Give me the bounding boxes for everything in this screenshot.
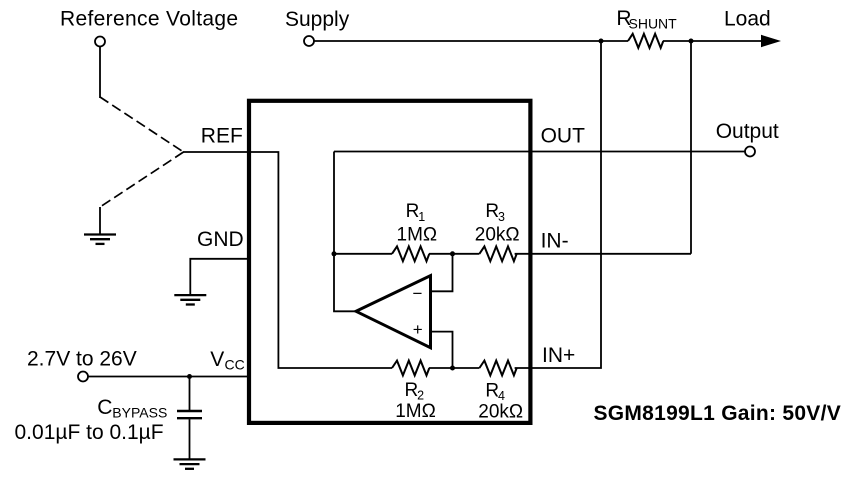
svg-text:Reference Voltage: Reference Voltage (60, 8, 238, 31)
svg-text:Supply: Supply (285, 8, 350, 31)
svg-text:3: 3 (498, 210, 505, 224)
svg-text:REF: REF (201, 125, 243, 148)
svg-text:BYPASS: BYPASS (112, 405, 167, 421)
svg-text:20kΩ: 20kΩ (478, 401, 523, 422)
svg-text:4: 4 (498, 389, 505, 403)
svg-text:0.01µF to 0.1µF: 0.01µF to 0.1µF (15, 421, 164, 444)
svg-text:1MΩ: 1MΩ (395, 401, 436, 422)
svg-text:OUT: OUT (541, 125, 586, 148)
svg-text:Output: Output (716, 120, 779, 143)
svg-text:SHUNT: SHUNT (629, 16, 678, 32)
svg-text:V: V (210, 348, 224, 371)
svg-text:GND: GND (197, 228, 244, 251)
svg-text:1: 1 (418, 210, 425, 224)
svg-text:2.7V to 26V: 2.7V to 26V (27, 348, 137, 371)
svg-text:Load: Load (724, 8, 771, 31)
svg-text:+: + (413, 320, 423, 339)
svg-text:2: 2 (417, 389, 424, 403)
svg-text:IN-: IN- (541, 230, 569, 253)
svg-text:−: − (413, 284, 423, 303)
svg-text:C: C (97, 396, 112, 419)
svg-text:CC: CC (225, 357, 245, 373)
svg-text:SGM8199L1 Gain: 50V/V: SGM8199L1 Gain: 50V/V (594, 402, 841, 425)
svg-text:20kΩ: 20kΩ (475, 224, 520, 245)
svg-text:IN+: IN+ (542, 344, 575, 367)
svg-text:1MΩ: 1MΩ (397, 224, 438, 245)
